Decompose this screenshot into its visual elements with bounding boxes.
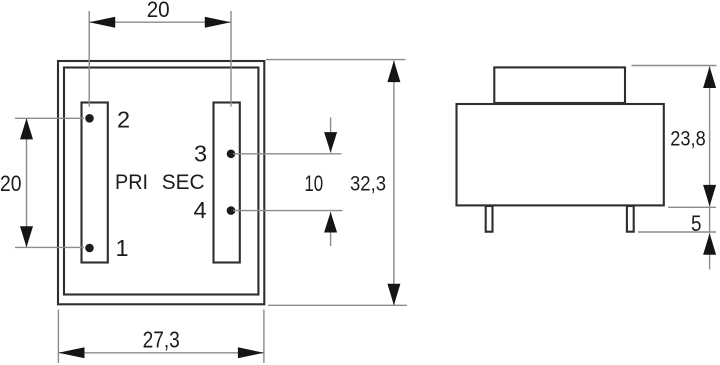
svg-text:SEC: SEC bbox=[162, 170, 205, 194]
dim 27,3: left arrowhead bbox=[59, 347, 85, 358]
primary pin slot bbox=[82, 103, 108, 263]
transformer side view: body outline bbox=[457, 104, 664, 205]
secondary pin slot bbox=[214, 103, 240, 263]
dim 20 left: extension line bottom bbox=[15, 246, 84, 248]
pin 1 dot bbox=[85, 244, 94, 253]
dim 32,3: bottom arrowhead bbox=[387, 284, 400, 306]
dim 20 left: extension line top bbox=[15, 117, 84, 119]
dim 20 left: bottom arrowhead bbox=[20, 226, 33, 247]
dim 5: lower tail line bbox=[709, 233, 711, 269]
dim 20 top: left arrowhead bbox=[89, 17, 115, 28]
dim 23,8: bottom arrowhead bbox=[703, 185, 716, 207]
dim 27,3: right arrowhead bbox=[238, 347, 264, 358]
dim 5: extension line at pin bottom bbox=[638, 231, 716, 233]
transformer top view: inner case outline bbox=[64, 68, 258, 295]
pin 4 dot bbox=[227, 206, 236, 215]
svg-text:10: 10 bbox=[304, 171, 323, 196]
dim 20 top: extension line left bbox=[88, 11, 90, 107]
dim 32,3: extension line bottom bbox=[268, 304, 407, 306]
svg-text:4: 4 bbox=[194, 197, 207, 223]
dim 23,8: top arrowhead bbox=[703, 67, 716, 89]
dim 5: connecting line bbox=[709, 207, 711, 232]
svg-text:20: 20 bbox=[147, 0, 170, 22]
svg-text:3: 3 bbox=[194, 140, 207, 166]
dim 32,3: dimension line bbox=[393, 61, 395, 306]
svg-text:2: 2 bbox=[117, 106, 130, 132]
svg-text:1: 1 bbox=[116, 235, 129, 261]
dim 5: lower arrowhead (up) bbox=[703, 233, 716, 255]
transformer side view: top cap outline bbox=[494, 67, 625, 103]
pin 3 dot bbox=[227, 150, 236, 159]
svg-text:5: 5 bbox=[691, 211, 702, 236]
dim 27,3: extension line right bbox=[263, 310, 265, 364]
transformer side view: left pin bbox=[486, 206, 493, 232]
dim 27,3: extension line left bbox=[57, 310, 59, 364]
transformer side view: right pin bbox=[627, 206, 634, 232]
dim 20 top: extension line right bbox=[230, 11, 232, 107]
dim 23,8: dimension line bbox=[709, 67, 711, 207]
dim 20 top: dimension line bbox=[89, 21, 231, 23]
dim 10: upper arrowhead (down) bbox=[324, 132, 337, 153]
dim 10: leader line from pin 4 bbox=[233, 210, 343, 212]
dim 10: upper tail line bbox=[330, 118, 332, 153]
svg-text:32,3: 32,3 bbox=[350, 172, 386, 196]
svg-text:20: 20 bbox=[0, 171, 22, 196]
dim 27,3: dimension line bbox=[59, 352, 264, 354]
svg-text:23,8: 23,8 bbox=[670, 126, 705, 150]
dim 20 left: top arrowhead bbox=[20, 118, 33, 139]
dim 10: lower tail line bbox=[330, 212, 332, 246]
svg-text:PRI: PRI bbox=[115, 170, 148, 194]
dim 32,3: top arrowhead bbox=[387, 61, 400, 83]
dim 23,8: extension line top bbox=[632, 65, 717, 67]
dim 10: leader line from pin 3 bbox=[233, 153, 342, 155]
pin 2 dot bbox=[85, 114, 94, 123]
dim 20 left: dimension line bbox=[26, 118, 28, 247]
dim 10: lower arrowhead (up) bbox=[324, 212, 337, 233]
dim 20 top: right arrowhead bbox=[205, 17, 231, 28]
transformer top view: outer case outline bbox=[58, 61, 264, 304]
dim 5: extension line at body bottom bbox=[668, 206, 716, 208]
svg-text:27,3: 27,3 bbox=[143, 327, 180, 353]
dim 32,3: extension line top bbox=[266, 59, 406, 61]
